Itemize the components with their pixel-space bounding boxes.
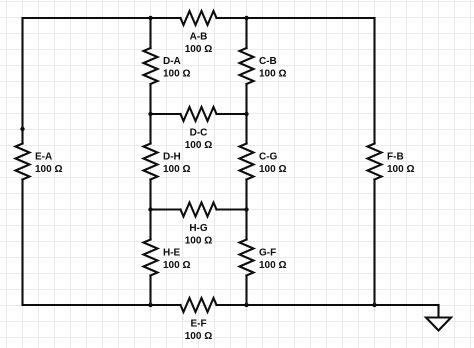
- svg-text:A-B: A-B: [190, 32, 208, 43]
- svg-text:D-A: D-A: [163, 56, 181, 67]
- svg-text:E-A: E-A: [35, 152, 52, 163]
- svg-text:H-G: H-G: [189, 223, 208, 234]
- svg-text:100 Ω: 100 Ω: [387, 164, 414, 175]
- svg-text:100 Ω: 100 Ω: [259, 164, 286, 175]
- svg-text:100 Ω: 100 Ω: [185, 140, 212, 151]
- svg-text:100 Ω: 100 Ω: [163, 69, 190, 80]
- svg-text:G-F: G-F: [259, 248, 276, 259]
- svg-text:100 Ω: 100 Ω: [259, 260, 286, 271]
- svg-text:E-F: E-F: [190, 319, 206, 330]
- svg-text:D-H: D-H: [163, 152, 181, 163]
- svg-text:100 Ω: 100 Ω: [163, 164, 190, 175]
- svg-text:D-C: D-C: [190, 128, 208, 139]
- svg-text:H-E: H-E: [163, 248, 181, 259]
- svg-text:100 Ω: 100 Ω: [185, 236, 212, 247]
- svg-text:F-B: F-B: [387, 152, 404, 163]
- svg-text:100 Ω: 100 Ω: [35, 164, 62, 175]
- svg-text:100 Ω: 100 Ω: [185, 44, 212, 55]
- svg-text:100 Ω: 100 Ω: [185, 331, 212, 342]
- svg-text:C-G: C-G: [259, 152, 278, 163]
- svg-text:100 Ω: 100 Ω: [259, 69, 286, 80]
- svg-text:100 Ω: 100 Ω: [163, 260, 190, 271]
- svg-text:C-B: C-B: [259, 56, 277, 67]
